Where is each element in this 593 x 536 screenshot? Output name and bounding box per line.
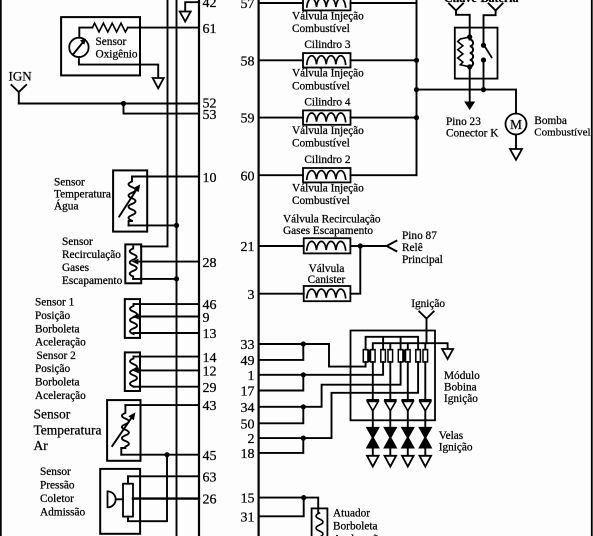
svg-text:Recirculação: Recirculação	[62, 249, 121, 261]
throttle2 pot resistor	[130, 357, 137, 387]
wire pin52 IGN	[19, 103, 199, 105]
spark column 2 wire2	[389, 411, 391, 428]
wire pin13	[134, 332, 200, 334]
EGR position sensor box	[125, 244, 141, 283]
wire pin45 to MAP bottom	[128, 455, 167, 522]
node water-gnd junction	[174, 223, 179, 228]
svg-text:12: 12	[203, 365, 217, 380]
svg-text:Sensor: Sensor	[34, 407, 71, 422]
spark column 4 wire3	[424, 448, 426, 456]
arrow pino 23	[464, 102, 475, 111]
svg-text:61: 61	[203, 22, 217, 37]
spark column 3 wire	[407, 362, 409, 400]
diode 4	[420, 400, 431, 411]
svg-text:Borboleta: Borboleta	[333, 521, 378, 533]
EGR pot resistor	[130, 246, 137, 279]
IGN antenna	[12, 85, 27, 104]
svg-text:Atuador: Atuador	[333, 508, 370, 520]
wire pin53	[124, 104, 200, 114]
spark column 1 wire	[372, 362, 374, 400]
wire node down to canister	[350, 246, 360, 294]
injector cyl4 coil	[307, 113, 346, 122]
spark column 2 wire	[389, 362, 391, 400]
border right	[591, 0, 593, 536]
switch contact bottom	[481, 57, 486, 62]
wire pin45	[121, 454, 199, 456]
EGR pot wiper arrowhead	[132, 259, 139, 265]
svg-text:Posição: Posição	[35, 310, 70, 322]
wire pair2 to coil2	[303, 362, 383, 375]
injector cyl3 coil	[307, 56, 346, 65]
relay coil	[470, 40, 473, 67]
svg-text:Pino 87: Pino 87	[402, 230, 437, 242]
node pin87 junction	[358, 243, 363, 248]
coil1 primary	[363, 350, 368, 362]
wire pin10	[132, 176, 199, 178]
wire pin60	[259, 174, 303, 176]
spark output columns	[367, 362, 431, 467]
node pin45 junction	[164, 452, 169, 457]
svg-text:63: 63	[203, 470, 217, 485]
svg-text:Gases Escapamento: Gases Escapamento	[283, 225, 373, 237]
svg-text:21: 21	[241, 240, 255, 255]
svg-text:Ignição: Ignição	[444, 393, 478, 405]
canister valve box	[304, 286, 351, 301]
wire pin14	[134, 356, 200, 358]
svg-text:Válvula Injeção: Válvula Injeção	[292, 68, 364, 80]
module box	[351, 331, 436, 421]
ECU connector right edge	[258, 0, 260, 536]
spark column 4 wire2	[424, 411, 426, 428]
wire pin31 + pair connector	[259, 498, 304, 517]
spark column 4 wire	[424, 362, 426, 400]
water temp bottom wire	[129, 224, 177, 226]
svg-text:3: 3	[248, 288, 255, 303]
ground arrow spark2	[385, 456, 397, 467]
ground arrow oxygen	[153, 78, 164, 88]
node 52/53 junction	[121, 101, 126, 106]
wire pin43	[125, 404, 199, 406]
svg-text:Combustível: Combustível	[292, 80, 350, 92]
node pair 1/17	[301, 372, 306, 377]
antenna ignicao	[419, 312, 433, 344]
wire pin59	[259, 117, 303, 119]
svg-text:Válvula Injeção: Válvula Injeção	[292, 183, 364, 195]
throttle2 wiper arrowhead	[132, 367, 139, 373]
svg-text:50: 50	[241, 417, 255, 432]
spark gap 3	[402, 428, 413, 448]
wire pin33	[259, 343, 304, 345]
node switch-feed	[481, 87, 486, 92]
coil4 secondary	[423, 350, 428, 362]
coil2 primary	[381, 350, 386, 362]
svg-text:Borboleta: Borboleta	[35, 323, 80, 335]
injector bus vertical	[416, 0, 418, 175]
svg-text:Sensor: Sensor	[96, 36, 127, 48]
wire to actuator	[304, 498, 319, 513]
wire pin57	[259, 2, 303, 4]
spark column 1 wire2	[372, 411, 374, 428]
svg-text:Canister: Canister	[308, 274, 346, 286]
svg-text:31: 31	[241, 510, 255, 525]
svg-text:Módulo: Módulo	[444, 370, 480, 382]
fuel pump stem	[515, 135, 517, 150]
svg-text:17: 17	[241, 385, 255, 400]
svg-text:Pino 23: Pino 23	[446, 116, 481, 128]
svg-text:Principal: Principal	[402, 254, 443, 266]
wire cyl4 to bus	[351, 117, 417, 119]
svg-text:Gases: Gases	[62, 262, 89, 274]
svg-text:Ar: Ar	[34, 438, 49, 453]
wire pin61	[128, 27, 199, 29]
spark column 3 wire3	[407, 448, 409, 456]
throttle sensor1 box	[125, 299, 140, 338]
svg-text:Bateria: Bateria	[481, 0, 519, 5]
svg-text:Válvula Recirculação: Válvula Recirculação	[283, 213, 381, 225]
wire pin12 wiper	[138, 369, 199, 371]
wire pin49 + pair connector	[259, 344, 304, 360]
svg-text:45: 45	[203, 449, 217, 464]
module bus B (secondaries)	[373, 343, 448, 349]
svg-text:Conector K: Conector K	[446, 128, 499, 140]
throttle1 wiper arrowhead	[132, 314, 139, 320]
svg-text:2: 2	[248, 432, 255, 447]
coil3 core	[403, 350, 405, 362]
wire cyl1 to bus	[351, 2, 417, 4]
oxygen sensor resistor zigzag	[92, 23, 127, 32]
injector cyl1 coil	[307, 0, 346, 7]
svg-text:Coletor: Coletor	[40, 493, 74, 505]
ground arrow spark3	[402, 456, 414, 467]
injector cyl1 box	[303, 0, 351, 10]
wire pin21	[259, 245, 304, 247]
actuator coil	[316, 513, 323, 536]
air temp arrow	[112, 419, 131, 446]
svg-text:Água: Água	[54, 201, 78, 213]
wire pin58	[259, 59, 303, 61]
svg-text:Sensor: Sensor	[54, 177, 85, 189]
label sensor temperatura ar	[34, 407, 102, 454]
wire pin46	[134, 303, 200, 305]
node bus-59	[414, 115, 419, 120]
wire cyl3 to bus	[351, 59, 417, 61]
wire pin63	[128, 475, 199, 477]
svg-text:Cilindro 4: Cilindro 4	[304, 96, 350, 108]
ground arrow module	[442, 349, 453, 359]
wire node to chevron	[360, 245, 386, 247]
air temp thermistor	[121, 405, 129, 455]
wire pin3	[259, 293, 304, 295]
coil3 primary	[398, 350, 403, 362]
ground arrow pump	[510, 149, 522, 160]
svg-text:33: 33	[241, 338, 255, 353]
svg-text:43: 43	[203, 399, 217, 414]
svg-text:M: M	[510, 117, 522, 132]
svg-text:Bomba: Bomba	[534, 115, 567, 127]
svg-text:Combustível: Combustível	[534, 127, 590, 139]
svg-text:Escapamento: Escapamento	[62, 275, 123, 287]
wire pin42	[185, 2, 199, 11]
injector cyl4 box	[303, 110, 351, 124]
wire pin2	[259, 437, 304, 439]
spark gap 1	[367, 428, 378, 448]
node pair 34/50	[301, 404, 306, 409]
svg-text:Ignição: Ignição	[411, 298, 445, 310]
diode 3	[402, 400, 413, 411]
EGR bottom wire	[133, 278, 176, 280]
svg-text:58: 58	[241, 54, 255, 69]
svg-text:15: 15	[241, 492, 255, 507]
MAP top stub to pin63	[127, 476, 129, 483]
node relay coil bottom	[467, 64, 472, 69]
wire pin28 wiper	[137, 261, 199, 263]
svg-text:57: 57	[241, 0, 255, 12]
wire pin26 (thick)	[133, 497, 199, 499]
spark column 2 wire3	[389, 448, 391, 456]
svg-text:18: 18	[241, 447, 255, 462]
svg-text:Sensor: Sensor	[40, 466, 71, 478]
svg-text:Oxigênio: Oxigênio	[96, 49, 138, 61]
svg-text:60: 60	[241, 169, 255, 184]
spark gap 4	[420, 428, 431, 448]
MAP sensor box	[100, 469, 140, 534]
svg-text:Combustível: Combustível	[292, 195, 350, 207]
ground arrow spark1	[367, 456, 379, 467]
node relay coil top	[467, 34, 472, 39]
oxygen sensor O2 box	[61, 17, 140, 75]
wire pair3 to coil3	[303, 362, 400, 407]
coil4 primary	[416, 350, 421, 362]
svg-text:Sensor 1: Sensor 1	[35, 296, 74, 308]
wire EGR to node	[350, 245, 360, 247]
wire pin18 + pair connector	[259, 438, 304, 453]
svg-text:Admissão: Admissão	[40, 506, 86, 518]
EGR valve coil	[307, 241, 346, 250]
coil3 secondary	[406, 350, 411, 362]
svg-text:42: 42	[203, 0, 217, 11]
module bus A (primaries)	[366, 337, 419, 350]
svg-text:Válvula Injeção: Válvula Injeção	[292, 10, 364, 22]
MAP link wire	[116, 498, 123, 500]
node pair 2/18	[301, 436, 306, 441]
oxygen sensor meter needle	[74, 43, 83, 54]
svg-text:Cilindro 2: Cilindro 2	[304, 154, 350, 166]
wire pin34	[259, 406, 304, 408]
supply bus vertical (top to EGR sensor)	[141, 0, 168, 246]
ECU connector left edge	[198, 0, 200, 536]
diode 2	[385, 400, 396, 411]
EGR valve box	[304, 238, 351, 253]
wire relay feed to pump	[417, 90, 517, 114]
fuel pump motor circle	[506, 114, 527, 135]
svg-text:Sensor: Sensor	[62, 236, 93, 248]
svg-text:Relê: Relê	[402, 242, 423, 254]
air temp sensor box	[107, 400, 140, 461]
wire pin15	[259, 497, 304, 499]
label valvula canister	[308, 263, 346, 286]
diode 1	[367, 400, 378, 411]
wire pin9 wiper	[138, 316, 199, 318]
svg-text:Borboleta: Borboleta	[35, 377, 80, 389]
spark gap 2	[385, 428, 396, 448]
svg-text:Posição: Posição	[35, 363, 70, 375]
actuator box	[312, 508, 328, 536]
injector cyl3 box	[303, 53, 351, 67]
switch blade	[485, 46, 492, 57]
relay box	[455, 28, 498, 79]
throttle sensor2 box	[125, 352, 140, 391]
svg-text:28: 28	[203, 256, 217, 271]
throttle1 pot resistor	[130, 304, 137, 334]
switch contact top	[481, 43, 486, 48]
node 15/31	[301, 495, 306, 500]
svg-text:34: 34	[241, 401, 255, 416]
wire pair4 to coil4	[303, 362, 418, 438]
ground bus vertical (full height)	[176, 0, 178, 536]
oxygen sensor meter circle	[69, 38, 88, 57]
svg-text:Combustível: Combustível	[292, 137, 350, 149]
border left	[0, 0, 2, 536]
water temp thermistor	[129, 177, 136, 226]
svg-text:Chave: Chave	[444, 0, 477, 5]
ground arrow pin42	[180, 12, 191, 22]
wire coil to pino23 arrow	[469, 67, 471, 102]
svg-text:Aceleração: Aceleração	[35, 337, 86, 349]
canister valve coil	[307, 289, 346, 298]
MAP sensor D symbol	[108, 491, 116, 507]
node bus-feed	[414, 87, 419, 92]
svg-text:Temperatura: Temperatura	[34, 423, 102, 438]
svg-text:53: 53	[203, 108, 217, 123]
node pair 33/49	[301, 341, 306, 346]
svg-text:Aceleração: Aceleração	[35, 390, 86, 402]
coil1 core	[368, 350, 370, 362]
svg-text:IGN: IGN	[9, 69, 33, 84]
wire pin17 + pair connector	[259, 375, 304, 391]
svg-text:Combustível: Combustível	[292, 23, 350, 35]
node bus-58	[414, 58, 419, 63]
coil2 secondary	[388, 350, 393, 362]
coil1 secondary	[371, 350, 376, 362]
svg-text:Válvula Injeção: Válvula Injeção	[292, 125, 364, 137]
svg-text:Pressão: Pressão	[40, 480, 75, 492]
relay resistor (parallel)	[458, 37, 470, 67]
antenna chave	[449, 4, 470, 37]
injector cyl2 box	[303, 168, 351, 182]
wire pair1 to coil1	[303, 344, 365, 367]
svg-text:49: 49	[241, 354, 255, 369]
wire pin50 + pair connector	[259, 407, 304, 424]
svg-text:Temperatura: Temperatura	[54, 189, 111, 201]
svg-text:Velas: Velas	[439, 430, 463, 442]
ground arrow spark4	[420, 456, 432, 467]
spark column 1 wire3	[372, 448, 374, 456]
svg-text:59: 59	[241, 112, 255, 127]
spark column 3 wire2	[407, 411, 409, 428]
svg-text:Bobina: Bobina	[444, 382, 477, 394]
wire switch down	[483, 60, 485, 90]
svg-text:Cilindro 3: Cilindro 3	[304, 39, 350, 51]
svg-text:10: 10	[203, 171, 217, 186]
chevron pino87	[387, 241, 397, 251]
antenna bateria	[484, 4, 503, 44]
oxygen sensor top wire	[79, 28, 92, 38]
svg-text:29: 29	[203, 381, 217, 396]
wire cyl2 to bus corner	[351, 174, 417, 176]
node EGR-gnd junction	[174, 276, 179, 281]
wire pin29	[134, 386, 200, 388]
MAP element rect	[123, 484, 133, 517]
svg-text:26: 26	[203, 493, 217, 508]
svg-text:1: 1	[248, 369, 255, 384]
water temp arrow	[119, 191, 136, 217]
oxygen sensor bottom wire to ground	[79, 57, 158, 78]
svg-text:9: 9	[203, 311, 210, 326]
injector cyl2 coil	[307, 171, 346, 180]
wire pin1	[259, 374, 304, 376]
svg-text:Válvula: Válvula	[309, 263, 345, 275]
water temp sensor box	[113, 170, 147, 231]
svg-text:Ignição: Ignição	[439, 442, 473, 454]
svg-text:13: 13	[203, 327, 217, 342]
svg-text:Sensor 2: Sensor 2	[37, 350, 77, 362]
